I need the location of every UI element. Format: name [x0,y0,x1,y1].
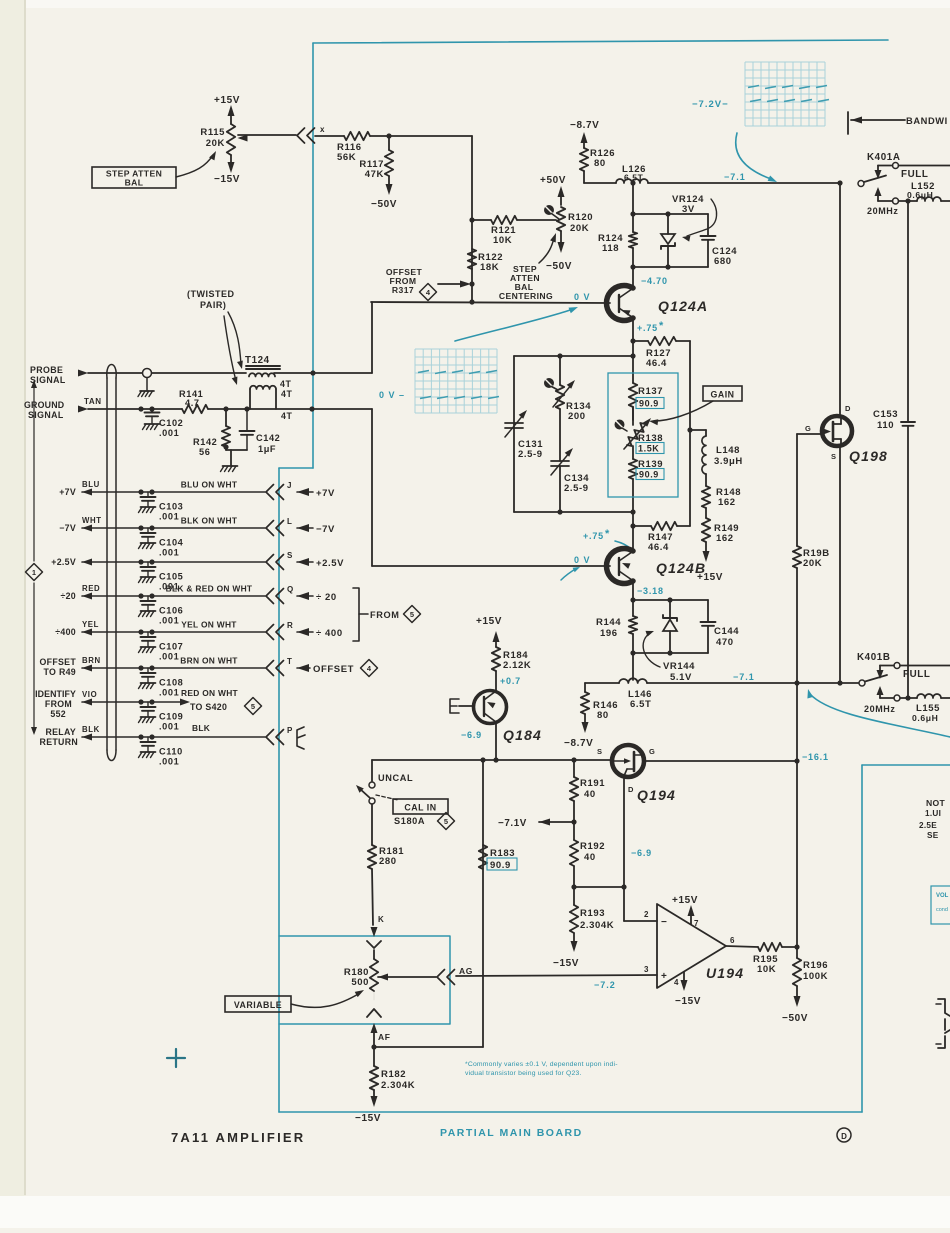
svg-text:R193: R193 [580,908,605,919]
svg-text:20K: 20K [570,223,589,234]
capacitor C106 [147,596,149,601]
circled D revision mark [837,1128,851,1142]
FROM 5 bracket [353,588,359,641]
svg-text:−7.2V−: −7.2V− [692,99,729,110]
svg-text:56: 56 [199,447,210,457]
svg-text:+2.5V: +2.5V [51,557,76,567]
capacitor C144 [707,600,709,622]
svg-text:+.75: +.75 [583,531,604,541]
R180 wiper arrow [378,974,388,981]
below R180 connector AF [367,1009,381,1017]
outer trimmer box bottom rail [514,511,633,513]
C131 adjust arrow [505,414,524,437]
zener diode VR124 [667,214,669,234]
shield ring on probe line [143,369,152,378]
svg-text:470: 470 [716,637,734,648]
svg-text:Q198: Q198 [849,448,888,464]
svg-text:TO S420: TO S420 [190,702,227,712]
svg-text:280: 280 [379,856,397,867]
AF feedback wire to R183 column [374,1046,483,1048]
svg-text:R120: R120 [568,212,593,223]
svg-text:+7V: +7V [59,487,76,497]
svg-text:IDENTIFY: IDENTIFY [35,689,76,699]
voltage conditions box right edge [931,886,950,924]
Q124A internals [618,295,620,312]
svg-text:*Commonly varies ±0.1 V, depen: *Commonly varies ±0.1 V, dependent upon … [465,1061,618,1068]
svg-text:20MHz: 20MHz [867,206,899,216]
svg-text:20K: 20K [206,138,225,149]
resistor R141 [182,405,208,413]
svg-text:BRN ON WHT: BRN ON WHT [180,656,238,666]
registration cross [167,1057,185,1059]
capacitor C103 [147,492,149,497]
svg-text:RED: RED [82,584,100,593]
VARIABLE callout box [225,996,291,1012]
svg-text:C106: C106 [159,606,183,616]
svg-text:1.UI: 1.UI [925,809,941,818]
transistor Q194 (FET) [612,745,644,777]
capacitor C142 [244,406,249,411]
svg-text:100K: 100K [803,971,828,982]
wire 20MHz contact B [900,697,917,699]
svg-text:−8.7V: −8.7V [570,120,599,131]
svg-text:+2.5V: +2.5V [316,558,344,569]
svg-text:GAIN: GAIN [711,390,735,400]
arrow up to +15V [230,113,232,124]
svg-text:.001: .001 [159,722,179,732]
callout curve to R120 wiper [539,238,554,263]
svg-text:7A11 AMPLIFIER: 7A11 AMPLIFIER [171,1130,305,1145]
svg-text:500: 500 [351,977,369,988]
svg-text:1: 1 [32,568,36,577]
svg-text:R137: R137 [638,386,663,397]
svg-text:−50V: −50V [371,199,397,210]
svg-text:YEL ON WHT: YEL ON WHT [181,620,237,630]
K401A blade [864,176,886,183]
resistor R191 [573,760,575,777]
svg-text:110: 110 [877,420,894,431]
op-amp U194 triangle [657,904,726,988]
svg-text:−3.18: −3.18 [637,586,664,596]
inductor L148 [705,430,707,436]
annotation curve at Q124B collector [615,541,631,549]
annotation arrow to 0V [455,309,573,341]
resistor R122 [468,249,476,269]
GAIN callout box [703,386,742,401]
svg-text:C105: C105 [159,572,183,582]
svg-text:90.9: 90.9 [639,399,659,409]
junction R147 [630,523,635,528]
svg-text:S: S [287,551,293,560]
-7.1 feedback line to K401A [584,182,616,184]
svg-text:RELAY: RELAY [45,727,76,737]
svg-text:4T: 4T [280,379,291,389]
svg-text:−50V: −50V [546,261,572,272]
svg-text:BRN: BRN [82,656,101,665]
junction at R117 [386,133,391,138]
svg-text:Q124A: Q124A [658,298,708,314]
clipped connector bracket right edge [938,999,950,1048]
arrow down to -15V [230,155,232,165]
wire down to Q124A base branch [471,136,473,302]
svg-text:118: 118 [602,243,619,254]
R138 wiper flag [615,420,625,430]
board boundary right edge lower [861,765,863,1112]
svg-text:C110: C110 [159,747,183,757]
svg-text:R192: R192 [580,841,605,852]
svg-text:+: + [661,971,667,982]
svg-text:K: K [378,915,384,924]
svg-text:80: 80 [597,710,609,721]
svg-text:÷400: ÷400 [55,627,76,637]
transistor Q124B [606,549,633,584]
wire R115 wiper to connector X [238,134,296,136]
svg-text:T124: T124 [245,355,270,366]
K401B 20MHz contact [894,695,900,701]
wire Q124A collector column [632,183,634,232]
Q124B internals [618,558,620,575]
arrow down to -50V [388,176,390,188]
R142/C142 common ground [225,447,227,450]
bottom junction rail [574,886,624,888]
svg-text:U194: U194 [706,965,744,981]
row wire L [82,525,92,532]
svg-text:6.5T: 6.5T [630,699,651,710]
-6.9 rail [372,759,612,761]
probe signal wire [88,372,246,374]
svg-text:R115: R115 [200,127,225,138]
BANDWIDTH callout [847,112,849,134]
svg-text:÷20: ÷20 [60,591,76,601]
row wire S [82,559,92,566]
resistor R192 [570,840,578,866]
resistor R142 [222,426,230,447]
ground signal arrow [78,406,88,413]
svg-text:−16.1: −16.1 [802,752,829,762]
svg-text:−7V: −7V [59,523,76,533]
resistor R117 [385,150,393,176]
svg-text:0 V: 0 V [574,555,591,565]
Q194 internals [633,752,636,771]
svg-text:5: 5 [444,817,448,826]
GAIN callout curve [654,401,713,421]
svg-text:−7.2: −7.2 [594,980,616,990]
wire to Q124A collector [632,267,634,288]
connector X chevrons [297,128,305,143]
resistor R139 [629,459,637,479]
svg-text:SE: SE [927,831,939,840]
svg-text:÷ 20: ÷ 20 [316,592,337,603]
svg-text:56K: 56K [337,152,356,163]
capacitor C109 [147,702,149,707]
resistor R124 [629,232,637,248]
svg-text:1μF: 1μF [258,444,276,454]
K401A FULL contact [893,163,899,169]
VR124/C124 top rail [630,211,635,216]
UNCAL switch [371,760,373,781]
svg-text:5: 5 [410,610,414,619]
svg-text:6: 6 [730,936,735,945]
svg-text:AG: AG [459,966,473,976]
svg-text:S: S [597,747,603,756]
inductor L152 [917,197,941,201]
junction at R127 [630,338,635,343]
Q198 internals [832,422,835,441]
row wire Q [82,593,92,600]
capacitor C104 [147,528,149,533]
svg-text:162: 162 [716,533,734,544]
svg-text:−15V: −15V [355,1113,381,1124]
svg-text:196: 196 [600,628,618,639]
svg-text:−8.7V: −8.7V [564,738,593,749]
svg-text:K401B: K401B [857,652,891,663]
svg-text:+15V: +15V [214,95,240,106]
Q198 source wire to -7.1 lower line [839,446,841,683]
svg-text:+0.7: +0.7 [500,676,521,686]
waveform graticule inset top right [744,62,746,126]
svg-text:CAL IN: CAL IN [404,803,436,813]
svg-text:5: 5 [251,702,255,711]
arrow down to -8.7V [584,714,586,726]
shield stub at P [297,727,305,749]
wire to Q124B collector [632,526,634,550]
zener diode VR144 [669,600,671,618]
svg-text:−50V: −50V [782,1013,808,1024]
svg-text:FROM: FROM [45,699,72,709]
svg-text:R317: R317 [392,285,414,295]
potentiometer R134 [559,356,561,385]
svg-text:200: 200 [568,411,586,422]
svg-text:R144: R144 [596,617,621,628]
svg-text:80: 80 [594,158,606,169]
transistor Q184 [474,691,507,724]
T124 secondary coil [250,386,276,389]
svg-text:−7V: −7V [316,524,335,535]
svg-text:OFFSET: OFFSET [40,657,77,667]
svg-text:D: D [628,785,634,794]
T124 primary coil [249,373,275,376]
svg-text:SIGNAL: SIGNAL [28,410,64,420]
potentiometer R115 [227,124,235,155]
arrow into Q124A base wire [438,283,464,285]
svg-text:−7.1: −7.1 [724,172,746,182]
T124 core bars [246,365,280,367]
svg-text:.001: .001 [159,512,179,522]
svg-text:C109: C109 [159,712,183,722]
svg-text:RETURN: RETURN [40,737,78,747]
svg-text:S180A: S180A [394,816,425,826]
R138 value 1.5K boxed [636,443,664,454]
svg-text:PROBE: PROBE [30,365,63,375]
svg-text:x: x [320,125,325,134]
Q124B base wire [372,565,610,567]
inductor L155 [917,694,941,698]
wire R116 to corner [370,135,472,137]
outer trimmer box top rail [514,355,633,357]
R134 wiper flag [544,378,554,388]
svg-text:R142: R142 [193,437,217,447]
svg-text:CENTERING: CENTERING [499,291,553,301]
small cyan hook at Q124B 0V [561,568,577,580]
board boundary right corner toward notes [862,764,950,766]
resistor R148 [705,474,707,486]
ground signal wire [88,408,182,410]
svg-text:SIGNAL: SIGNAL [30,375,66,385]
svg-text:Q194: Q194 [637,787,676,803]
L148 branch junction [687,427,692,432]
svg-text:+.75: +.75 [637,323,658,333]
svg-text:−7.1V: −7.1V [498,818,527,829]
C134 adjust arrow [551,452,570,475]
svg-text:552: 552 [50,709,66,719]
annotation arrow from inset 2 to -7.1 line [736,133,771,179]
resistor R149 [705,508,707,518]
U194 +15V supply pin [690,912,692,924]
svg-text:BLU ON WHT: BLU ON WHT [181,480,238,490]
svg-text:4.7: 4.7 [185,398,200,408]
wire X to R116 [315,135,344,137]
svg-text:OFFSET: OFFSET [313,664,354,675]
U194 -15V supply pin [683,972,685,984]
bottom rail of R144 block [633,652,708,654]
Q194 gate wire [644,760,797,762]
AF junction [371,1044,376,1049]
AG wire to U194 +input [456,975,657,976]
svg-text:0 V: 0 V [574,292,591,302]
svg-text:−6.9: −6.9 [461,730,482,740]
svg-text:20MHz: 20MHz [864,704,896,714]
Q184 emitter wire [495,722,497,760]
capacitor C107 [147,632,149,637]
R134 adjust arrow [553,384,572,407]
variable capacitor C131 [505,422,523,424]
wire down to -7.1 line [632,653,634,680]
svg-text:1.5K: 1.5K [638,444,659,454]
svg-text:L148: L148 [716,445,740,456]
arrow down -15V at R193 [573,933,575,945]
svg-text:.001: .001 [159,428,179,438]
svg-text:Q: Q [287,585,294,594]
variable capacitor C134 [551,460,569,462]
wire 20MHz contact [899,200,918,202]
svg-text:K401A: K401A [867,152,901,163]
svg-text:.001: .001 [159,757,179,767]
svg-text:.001: .001 [159,688,179,698]
board boundary bottom edge [279,1111,862,1113]
svg-text:Q184: Q184 [503,727,542,743]
waveform trace upper [748,86,759,88]
resistor R195 [758,943,782,951]
svg-text:S: S [831,452,837,461]
board boundary left edge lower [278,468,280,1112]
svg-text:46.4: 46.4 [646,358,667,369]
svg-text:PAIR): PAIR) [200,300,226,310]
wire to U194 inverting input [623,887,625,921]
gain network blue box [608,373,678,497]
svg-text:NOT: NOT [926,798,945,808]
potentiometer R180 VARIABLE [370,959,378,991]
Q198 gate wire [797,433,822,435]
svg-text:18K: 18K [480,262,499,273]
K401B blade [865,675,887,682]
svg-text:0.6μH: 0.6μH [907,190,933,200]
svg-text:RED ON WHT: RED ON WHT [181,688,239,698]
svg-text:10K: 10K [757,964,776,975]
note diamond 1 on bundle bracket [33,385,35,561]
svg-text:C144: C144 [714,626,739,637]
R146 branch corner [585,682,619,684]
VARIABLE callout curve [291,993,360,1007]
probe signal arrow [78,370,88,377]
K401A 20MHz contact [893,198,899,204]
svg-text:TAN: TAN [84,397,102,406]
R139 value 90.9 boxed [636,469,664,480]
svg-text:5.1V: 5.1V [670,672,692,683]
resistor R182 [373,1047,375,1066]
svg-text:T: T [287,657,293,666]
wiper wire to AG [378,976,436,978]
svg-text:cond: cond [936,907,948,913]
svg-text:C108: C108 [159,678,183,688]
resistor R147 [651,522,677,530]
svg-text:*: * [605,528,610,540]
top rail of R144 block [630,597,635,602]
junction R121 [469,217,474,222]
Q124A emitter wire [632,318,634,341]
svg-text:−15V: −15V [675,996,701,1007]
svg-text:YEL: YEL [82,620,99,629]
svg-text:0.6μH: 0.6μH [912,713,938,723]
capacitor C153 [901,421,915,423]
resistor R198 [793,546,801,568]
svg-text:90.9: 90.9 [639,470,659,480]
potentiometer R120 step atten bal centering [560,192,562,205]
capacitor C124 [707,214,709,236]
capacitor C110 [147,737,149,742]
svg-text:2.304K: 2.304K [580,920,614,931]
junction R142 [223,406,228,411]
svg-text:46.4: 46.4 [648,542,669,553]
resistor R184 [492,647,500,671]
svg-text:BANDWI: BANDWI [906,116,948,126]
svg-text:+15V: +15V [672,895,698,906]
resistor R181 [371,804,373,845]
svg-text:G: G [649,747,655,756]
callout curve from STEP ATTEN BAL to R115 [176,155,213,177]
svg-text:−15V: −15V [553,958,579,969]
svg-text:.001: .001 [159,548,179,558]
resistor R144 [632,600,634,616]
Q184 internals [483,697,485,716]
R115 wiper arrow [238,135,248,142]
wire R127 to right vertical [676,340,690,342]
svg-text:vidual transistor being used f: vidual transistor being used for Q23. [465,1070,582,1077]
-7.1 line to K401B [647,682,861,684]
Q184 base chassis stub [450,699,459,713]
CAL IN callout box [393,799,448,814]
svg-text:.001: .001 [159,652,179,662]
svg-text:−15V: −15V [214,174,240,185]
svg-text:680: 680 [714,256,732,267]
wire R181 to K connector [372,869,373,925]
svg-text:AF: AF [378,1032,391,1042]
svg-text:2.5E: 2.5E [919,821,937,830]
inductor L126 [616,179,648,183]
svg-text:C107: C107 [159,642,183,652]
callout curve VR124 [687,199,717,236]
svg-text:TO R49: TO R49 [44,667,76,677]
svg-text:−7.1: −7.1 [733,672,755,682]
